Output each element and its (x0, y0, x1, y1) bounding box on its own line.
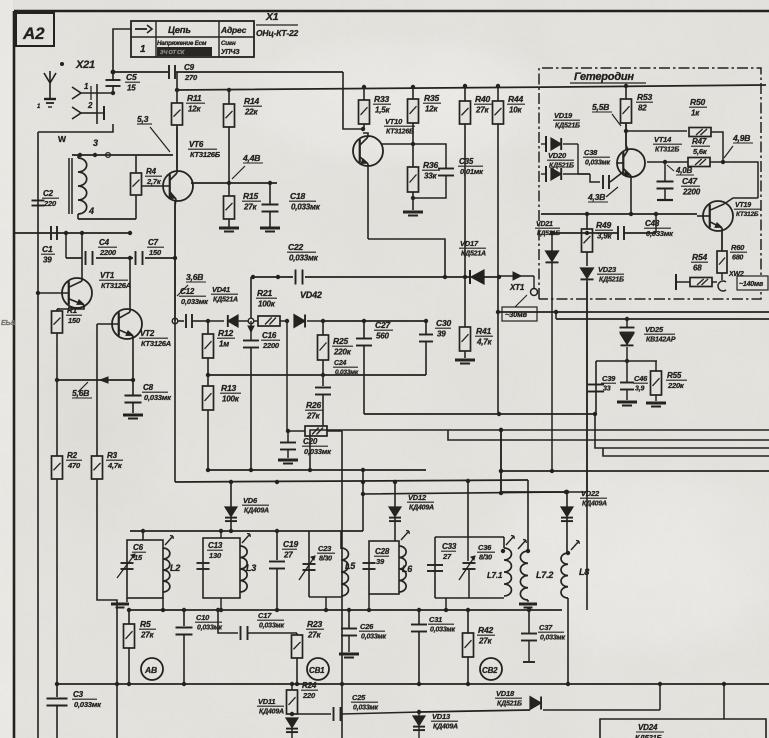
resistor R5 (124, 610, 157, 686)
capacitor C36 (459, 537, 495, 598)
capacitor C17 (241, 611, 298, 640)
wire 49 node (723, 162, 758, 198)
node y155 dots (78, 153, 111, 158)
oscillator tank left (593, 361, 597, 416)
wire y440 rail (448, 430, 769, 440)
testpoint link (515, 295, 527, 307)
wire y714 (290, 712, 331, 716)
diode VD19 (541, 111, 580, 152)
capacitor C27 (356, 320, 393, 414)
wire R50 branch (624, 129, 687, 133)
node top junction (111, 70, 116, 96)
wire x660 riser (658, 682, 662, 710)
diode VD18 (420, 689, 660, 712)
ground under C18 (260, 228, 280, 232)
table cell blob (157, 47, 212, 56)
antenna W (44, 71, 56, 98)
capacitor C23 (299, 544, 335, 580)
wire x724 riser (722, 682, 726, 719)
table header Цепь (168, 25, 191, 36)
varicap VD12 (389, 482, 434, 541)
tank L6 trimmer (401, 531, 409, 541)
connector shell (91, 84, 104, 124)
wire L8 bottom (566, 598, 570, 686)
label W (58, 134, 67, 144)
node ring C12 (172, 318, 178, 324)
capacitor C46 (620, 359, 648, 400)
diode VD17 (459, 239, 486, 284)
resistor R60 (717, 230, 747, 280)
inductor L71 (487, 548, 511, 596)
capacitor C33 (427, 542, 457, 571)
wire x501 riser (499, 428, 503, 493)
capacitor C9 (169, 63, 200, 82)
connector pin 2 arrow (72, 101, 97, 119)
table cell text 1 (157, 40, 207, 47)
resistor R55 (651, 361, 688, 401)
capacitor C31 (411, 610, 455, 686)
resistor R44 (493, 84, 526, 414)
transistor VT2 (97, 258, 142, 395)
testpoint XT1 (509, 283, 538, 296)
label VT2 (139, 329, 171, 348)
wire y321 right (323, 319, 426, 323)
capacitor C12 (178, 287, 209, 328)
wire table to C5 (113, 29, 131, 72)
ground under C46 (617, 402, 637, 406)
wire VT1 emitter to R1 (57, 308, 60, 310)
table pin number 1 (140, 44, 146, 55)
varicap VD11 (257, 697, 298, 738)
capacitor C18 (262, 183, 321, 227)
resistor R41 (460, 277, 494, 358)
wire y430 rail (310, 430, 769, 470)
wire y277 rail (251, 276, 499, 278)
resistor R47 (647, 137, 725, 167)
resistor R40 (460, 84, 493, 277)
label X21 (60, 59, 95, 71)
capacitor C47 (657, 162, 701, 200)
wire L71 bottom (444, 598, 448, 612)
connector table X1 box (131, 21, 254, 57)
label VT1 (99, 271, 131, 290)
testpoint SV2 (480, 658, 502, 680)
wire y494 rail (363, 490, 586, 495)
testpoint AB (141, 658, 163, 680)
wire L3 bottom (219, 598, 223, 612)
capacitor C25 (334, 693, 421, 721)
label 4,4V (232, 153, 263, 179)
wire y90 rail (177, 85, 766, 90)
transistor VT19 (697, 198, 758, 251)
label 5,6V (72, 382, 92, 398)
inductor L3 (240, 546, 256, 592)
capacitor C24 (315, 360, 359, 427)
ground under R41 (455, 360, 475, 364)
resistor R26 (286, 321, 342, 436)
wire y155 (72, 154, 173, 156)
wire y492 (501, 490, 568, 494)
wire x587 long vertical (586, 280, 588, 610)
tank L71 box (435, 537, 504, 598)
inductor L72 (520, 551, 553, 600)
label 4,9V (724, 133, 753, 158)
diode VD20 (541, 151, 590, 182)
resistor R33 (359, 85, 392, 129)
ground under C20 (278, 460, 298, 464)
wire y470 rail (206, 468, 426, 472)
label 3,6V (177, 272, 206, 296)
label 5,3V (137, 114, 170, 152)
resistor R25 (318, 321, 354, 386)
table header Адрес (220, 25, 247, 35)
varicap VD6 (225, 482, 269, 531)
tank L72 trimmer (518, 540, 526, 550)
inductor L8 (561, 551, 589, 598)
label X1 (256, 11, 299, 38)
resistor R50 (689, 97, 723, 162)
ground under L2 box (111, 598, 129, 608)
inductor winding L1 (78, 155, 87, 219)
capacitor C22 (287, 242, 319, 285)
wire y312 rail (498, 277, 769, 312)
wire y214 rail (541, 212, 697, 216)
wire y375 (208, 373, 426, 377)
resistor R54 (676, 252, 717, 290)
wire y684 rail (55, 682, 769, 686)
inductor L6 (399, 546, 413, 592)
resistor R2 (52, 451, 83, 697)
wire y319 rail (554, 310, 769, 319)
capacitor C16 (243, 321, 280, 470)
testpoint XT1 wire (499, 272, 534, 288)
ground under antenna (37, 99, 56, 110)
resistor R14 (224, 88, 263, 183)
resistor R42 (463, 610, 496, 686)
border frame top (14, 10, 769, 13)
node ring VD41 (248, 318, 254, 324)
resistor R12 (203, 319, 236, 375)
connector pin 1 arrow (72, 82, 113, 99)
resistor R1 (52, 306, 83, 456)
diode VD41 (208, 285, 248, 327)
node VT1 base (36, 291, 40, 295)
capacitor C1 (41, 226, 57, 265)
label 4,0V (667, 165, 694, 175)
tank L71 trimmer (506, 536, 514, 546)
capacitor C28 (363, 547, 390, 569)
tank L8 trimmer (571, 541, 579, 551)
wire y258 (66, 233, 177, 260)
label VT10 (384, 117, 415, 136)
label 4,3V (587, 187, 618, 202)
capacitor C13 (197, 541, 224, 569)
resistor R13 (203, 373, 242, 470)
resistor R24 (287, 681, 319, 714)
connector XW2 (718, 281, 726, 291)
tank L2 box (127, 531, 163, 598)
inductor L5 (341, 548, 356, 596)
node VD42 out (285, 319, 325, 323)
label VT19 (734, 202, 761, 218)
capacitor C5 (106, 72, 141, 93)
wire x342 vertical (340, 431, 344, 738)
wire L5 bottom (324, 597, 328, 612)
wire y72 rail (113, 71, 343, 73)
output box 140mv (737, 276, 768, 290)
capacitor C38 (583, 148, 623, 189)
transistor VT14 (617, 123, 645, 214)
varicap VD22 (561, 489, 607, 553)
resistor R11 (172, 88, 206, 171)
wire L2 bottom (161, 598, 165, 612)
border frame left (13, 11, 16, 738)
resistor R36 (408, 144, 441, 200)
node VT10 base (361, 127, 365, 131)
wire y380 agc (55, 377, 135, 383)
capacitor C30 (419, 318, 451, 375)
varicap VD25 (620, 317, 676, 361)
wire y414 rail (364, 412, 595, 416)
wire y72 descent (343, 72, 363, 129)
capacitor C43 (618, 219, 674, 240)
wire coil bottom (78, 218, 136, 220)
ground under R55 (646, 403, 666, 407)
table divider vertical 2 (218, 21, 220, 57)
label A2 box (16, 13, 54, 46)
ground under C8 (123, 415, 143, 419)
capacitor C4 (86, 238, 118, 265)
node R44 line dots (496, 310, 500, 314)
label 5,5V (592, 102, 621, 126)
wire x38 long vertical (37, 132, 39, 738)
resistor R21 (254, 288, 287, 326)
transistor VT1 (38, 233, 92, 309)
resistor R53 (621, 84, 654, 150)
transistor VT10 (353, 133, 383, 239)
wire y233 (15, 231, 132, 235)
capacitor C7 (136, 238, 165, 265)
resistor R15 (224, 183, 262, 227)
wire VT6 emitter long (174, 200, 176, 482)
label 3 (93, 138, 98, 148)
oscillator title (570, 71, 646, 83)
tank L2 trimmer (165, 536, 173, 546)
resistor R4 (131, 155, 163, 219)
resistor R49 (582, 214, 614, 266)
varicap VD13 (413, 710, 458, 738)
ground under R15 (219, 228, 239, 232)
transformer core (69, 158, 72, 214)
capacitor C2 (32, 189, 60, 208)
capacitor C35 (413, 144, 484, 198)
wire VT10 emitter (368, 239, 445, 277)
tank L5 box (309, 531, 341, 597)
ground under C26 (339, 654, 359, 658)
wire y482 rail (175, 479, 528, 484)
transistor VT6 (142, 127, 193, 321)
wire box around input (38, 124, 113, 132)
wire x501 riser (499, 428, 503, 492)
diode VD42 (294, 290, 323, 328)
wire y72 to y90 jog (176, 72, 178, 90)
testpoint box 30mv (502, 307, 537, 321)
wire y610 rail (127, 608, 562, 612)
wire y183 (191, 181, 277, 185)
capacitor C37 (521, 610, 565, 662)
wire y448 rail (595, 414, 769, 448)
wire x587 long vertical (586, 282, 588, 492)
capacitor C19 (269, 531, 298, 612)
node y277 dots (251, 275, 501, 279)
wire L6 bottom (367, 594, 371, 612)
testpoint SV1 (307, 658, 329, 680)
capacitor C10 (176, 610, 223, 686)
tank L3 box (203, 531, 240, 598)
wire C43 line (550, 212, 658, 235)
wire C17 branch (218, 610, 238, 633)
label VT6 (188, 140, 221, 159)
resistor R3 (92, 324, 124, 738)
capacitor C6 (117, 543, 146, 578)
tank L3 trimmer (242, 534, 250, 544)
label VD24 (635, 723, 664, 738)
ground under R36 (403, 198, 423, 216)
wire x528 riser (526, 480, 530, 553)
table pin symbol (135, 25, 152, 33)
wire VT10 collector (381, 142, 415, 146)
wire diode join (578, 144, 590, 174)
capacitor C8 (125, 383, 173, 413)
label 4 (88, 206, 94, 216)
diode VD21 (535, 221, 561, 473)
oscillator box Гетеродин (539, 68, 761, 299)
resistor R35 (408, 85, 442, 144)
capacitor C39 (588, 374, 616, 393)
capacitor C3 (47, 690, 103, 738)
left margin smudge (1, 320, 15, 327)
wire x251 riser (250, 277, 252, 318)
wire y471 rail (501, 470, 769, 472)
oscillator tank top (596, 360, 657, 362)
table cell УПЧЗ (221, 40, 240, 56)
wire y456 rail (603, 448, 769, 456)
wire y531 rail (130, 529, 363, 533)
wire x468 riser (467, 481, 469, 537)
resistor R23 (292, 619, 325, 686)
capacitor C20 (280, 431, 332, 458)
table divider horizontal (131, 36, 254, 38)
capacitor C26 (341, 610, 386, 652)
ground under L72 (519, 600, 537, 608)
table divider vertical 1 (155, 21, 157, 57)
label VT14 (653, 135, 682, 154)
inductor L2 (163, 548, 180, 592)
block VD24 box (600, 719, 766, 738)
diode VD23 (581, 265, 625, 610)
wire x363 riser (361, 470, 365, 531)
tank L6 box (369, 541, 399, 594)
